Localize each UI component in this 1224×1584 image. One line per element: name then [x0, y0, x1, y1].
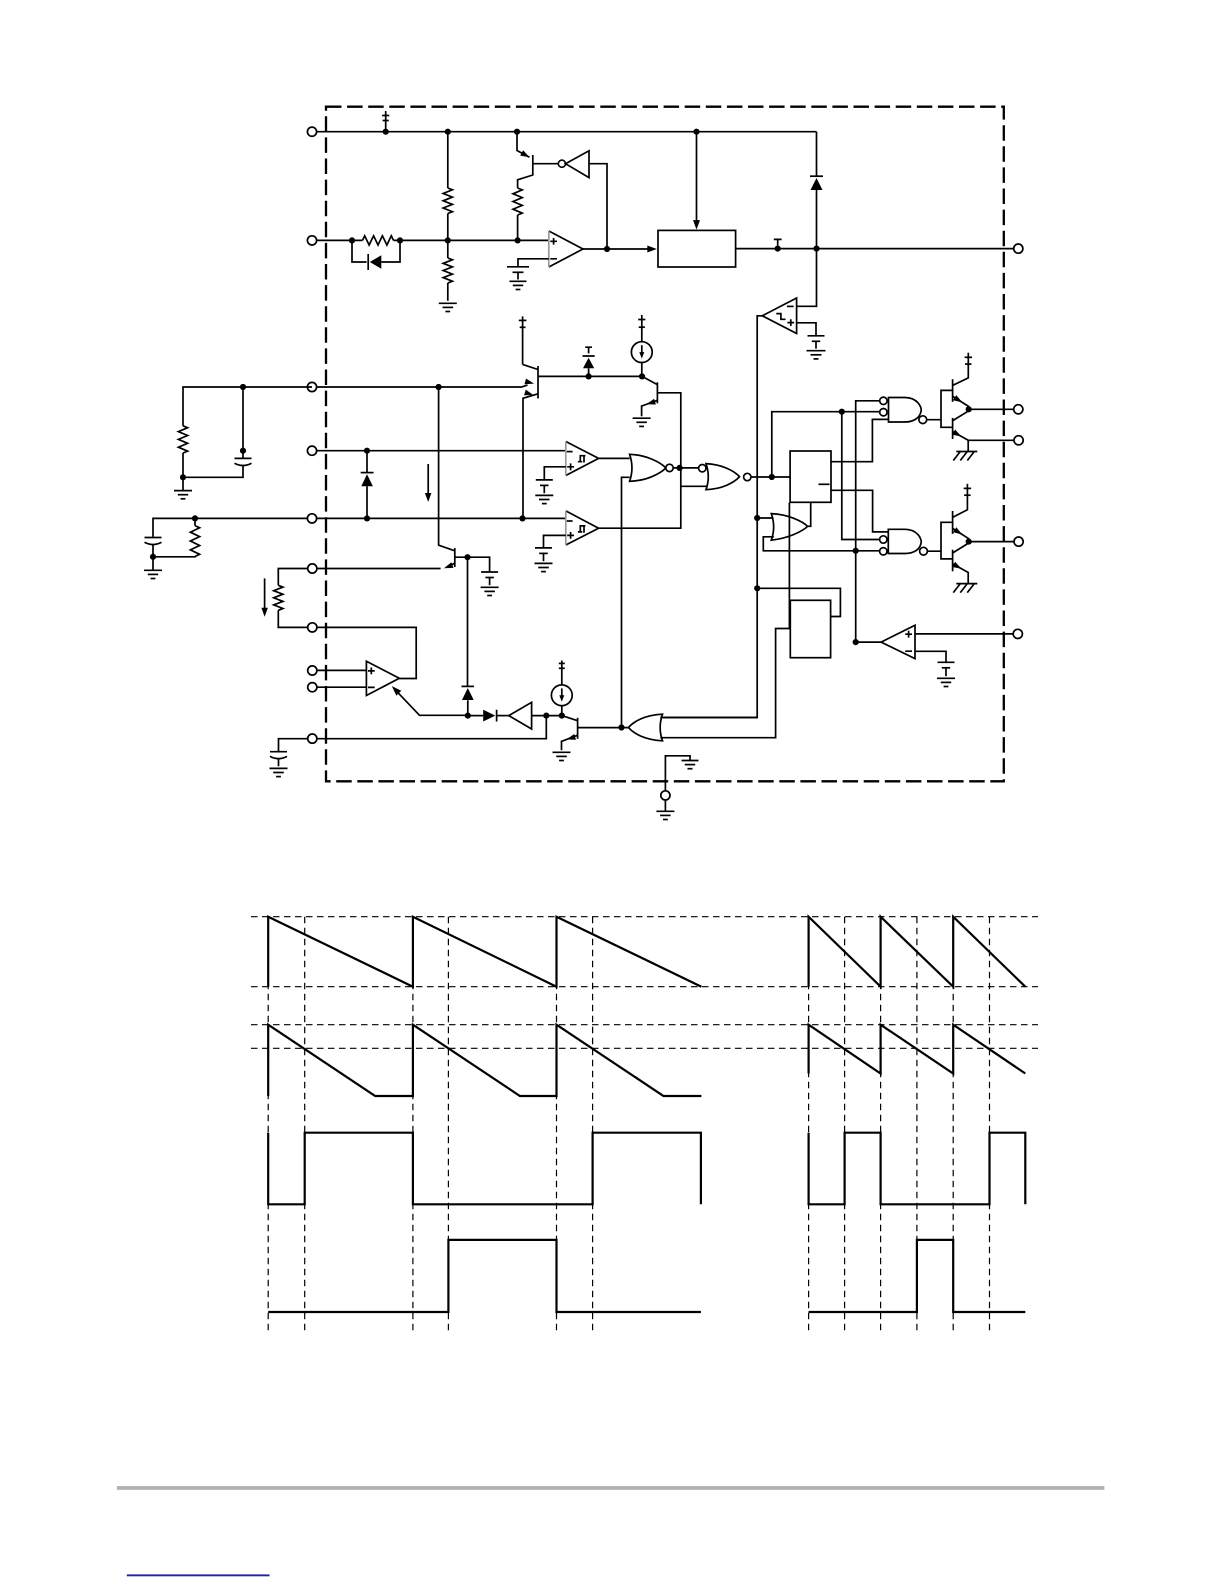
base wire Q5	[578, 727, 629, 729]
wire U1 output to oscillator	[583, 248, 649, 250]
IC boundary dashed box	[326, 107, 1004, 782]
NAND gate G6	[888, 529, 921, 553]
waveform: output Q2	[268, 1240, 701, 1312]
diode D5	[462, 685, 475, 687]
wire NAND1 input1 down to comparator U8 output	[856, 401, 880, 642]
reference battery B5	[481, 572, 499, 596]
wire spine to latch block	[757, 588, 840, 616]
pin SS (pin10)	[317, 716, 546, 739]
OR gate G4	[771, 514, 807, 541]
oscillator block	[658, 230, 736, 267]
ground under R2	[439, 303, 457, 311]
ground under C3	[270, 768, 288, 776]
wire to pin C1	[969, 408, 1014, 410]
external resistor R5	[183, 387, 312, 426]
wire NAND1 output to Q6/Q7 bases	[927, 390, 953, 427]
base wire Q4 to reference	[455, 557, 490, 571]
output transistor Q9	[952, 550, 954, 572]
supply symbol above Q2	[519, 316, 527, 364]
wire node down to hysteresis comparator	[797, 249, 817, 307]
wire U4 + input to reference	[544, 467, 566, 480]
internal supply symbol (+) on rail	[382, 111, 389, 132]
waveform: output Q1	[268, 1133, 701, 1205]
external resistor R6	[194, 518, 196, 525]
pin VCC	[307, 127, 316, 136]
pin IN- (pin9)	[317, 686, 366, 688]
internal ground symbol	[682, 761, 699, 769]
diode D3 with reference tick	[583, 347, 595, 376]
wire G3 output to flip-flop	[751, 476, 790, 478]
wire pin7 to error amp output	[317, 627, 416, 678]
current arrow beside Q4 collector	[427, 464, 429, 494]
wire G1 input 2 from latch	[660, 503, 789, 738]
pin FB (pin5)	[312, 517, 566, 519]
transistor Q2 (dual-emitter PNP)	[537, 366, 539, 399]
comparator U5 (DTC, hysteresis)	[566, 511, 599, 545]
chassis ground under Q7	[953, 452, 977, 461]
comparator U3 (hysteresis, pointing left)	[762, 298, 796, 334]
supply symbol above Q6	[965, 353, 972, 365]
resistor R1	[447, 132, 449, 188]
diode D1 (bypass, pointing left)	[352, 240, 400, 262]
wire U3 output down the spine	[663, 316, 762, 718]
wire G1 input 1 from spine	[660, 717, 757, 719]
ground under Q3	[633, 418, 651, 426]
wire VCC rail	[312, 131, 817, 133]
wire U3 + input to reference	[797, 323, 816, 336]
output transistor Q8	[952, 511, 954, 534]
wire rail into oscillator top	[696, 132, 698, 222]
resistor R3 (series)	[363, 236, 394, 245]
reference battery B3	[535, 480, 553, 504]
reference battery B4	[535, 548, 553, 572]
wire to pin C2	[969, 541, 1014, 543]
waveform: CT sawtooth	[268, 917, 701, 987]
timing grid: vertical dashed lines	[267, 917, 269, 1331]
external ground under GND pin	[664, 800, 666, 811]
wire buffer to current source node	[532, 715, 562, 717]
wire U1 inverting input to reference	[518, 259, 549, 267]
ground under C2/R6	[152, 557, 154, 571]
wire NOR-out net down to NAND2 input	[842, 412, 880, 540]
transistor Q5 (NPN, soft-start)	[577, 718, 579, 739]
base wire Q3 down to NOR net	[599, 393, 681, 528]
wire U5 + input to reference	[544, 535, 566, 547]
flip-flop output 1 to NAND1	[831, 419, 889, 461]
wire G2 out to G3	[673, 467, 698, 469]
chassis ground under Q9	[953, 584, 977, 593]
ground under Q5	[553, 752, 571, 760]
wire pin3 net	[312, 385, 528, 387]
NOR gate G2	[630, 454, 666, 481]
external capacitor C2	[153, 518, 307, 556]
feedback arrow into U6	[394, 689, 468, 716]
current direction arrow at R7	[264, 578, 266, 608]
pin CT/ramp out	[1014, 244, 1023, 253]
pin DT (pin6)	[317, 568, 441, 570]
footer separator bar	[117, 1486, 1104, 1490]
pin IN+ (pin8)	[317, 669, 366, 671]
external soft-start resistor R7	[278, 569, 307, 586]
wire G4 input2 from output-control net	[763, 537, 879, 551]
ground under R5/C1	[182, 477, 184, 490]
diode D2	[810, 175, 823, 177]
flip-flop output 2 to NAND2	[831, 490, 888, 532]
wire G3 out up to NAND inputs	[772, 412, 880, 477]
wire Q4 base diode chain down	[467, 557, 469, 715]
current source I1	[638, 315, 645, 342]
pin COMP (pin7)	[308, 623, 317, 632]
external capacitor C3	[279, 739, 308, 767]
current tick marker on output	[774, 239, 782, 245]
reference battery B2	[807, 336, 826, 359]
op-amp U1 (error amplifier)	[549, 231, 583, 267]
pin IN- (pin4)	[312, 450, 566, 452]
base wire Q2	[538, 375, 642, 377]
transistor Q3 (NPN, dead-time)	[656, 382, 658, 403]
wire oscillator output to pin	[736, 248, 1014, 250]
wire U4 output to NOR A	[599, 457, 630, 459]
waveform: feedback/sawtooth comparison	[268, 1025, 701, 1096]
wire U8 output	[856, 641, 881, 643]
pulse-steering flip-flop block	[790, 451, 831, 502]
wire inverter output down to op-amp output node	[589, 164, 607, 249]
wire G4 output to flip-flop bottom	[808, 502, 811, 526]
wire G1 output up to NOR A input	[622, 477, 630, 727]
wire U8 - input to reference	[915, 651, 946, 662]
pin GND	[665, 756, 690, 791]
comparator U8 (output control, pointing left)	[881, 625, 915, 658]
buffer U7 (pointing left)	[509, 702, 532, 729]
wire to pin E1	[968, 439, 1014, 441]
footer link underline	[127, 1574, 270, 1576]
wire G4 input1 from spine	[757, 517, 773, 519]
error amplifier U6	[366, 661, 399, 695]
wire U8 + input to pin OC	[915, 633, 1013, 635]
comparator U4 (PWM, hysteresis)	[566, 442, 599, 476]
wire rail corner down through D2	[816, 132, 818, 249]
transistor Q1 (PNP, top)	[532, 155, 534, 176]
reference battery B6	[937, 662, 955, 686]
NAND gate G5	[889, 398, 922, 423]
reference battery B1	[507, 267, 529, 290]
output transistor Q7	[952, 418, 954, 439]
current source I2	[559, 661, 565, 686]
external capacitor C1	[183, 387, 243, 477]
resistor R2	[447, 240, 449, 258]
output transistor Q6	[952, 379, 954, 402]
latch block	[790, 600, 830, 657]
wire pin2 to comparator	[312, 239, 549, 241]
resistor R4	[513, 188, 522, 215]
NOR gate G3	[699, 465, 706, 472]
diode D4	[366, 451, 368, 519]
inverter U2 (bubble input, pointing left)	[558, 160, 565, 167]
node on rail at R1	[383, 129, 389, 135]
diode D6 (series, pointing right)	[468, 715, 483, 717]
base wire Q1 to inverter	[533, 163, 559, 165]
transistor Q4 (NPN, DT clamp)	[454, 548, 456, 567]
OR gate G1 (mirrored, output left)	[628, 714, 662, 741]
timing grid: horizontal dashed levels	[251, 916, 1038, 918]
wire NAND2 output to Q8/Q9 bases	[927, 522, 952, 559]
